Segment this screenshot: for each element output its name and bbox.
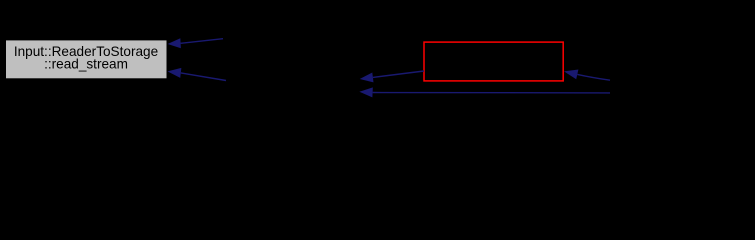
svg-text:::read_stream: ::read_stream — [44, 57, 128, 72]
